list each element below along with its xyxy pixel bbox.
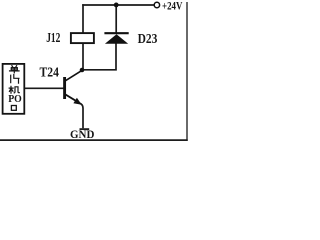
片 (11, 75, 19, 84)
junction: collector node (80, 68, 85, 73)
wire: +24V top rail (82, 4, 154, 6)
terminal +24V (154, 2, 159, 7)
口 (11, 106, 16, 111)
transistor T24 (65, 71, 82, 105)
label 单片机PO口 (vertical text, CJK drawn as paths) (8, 66, 22, 111)
svg-text:GND: GND (70, 127, 95, 141)
wire: collector node to D23 anode corner (82, 44, 116, 70)
wire: emitter down to ground (80, 103, 83, 128)
svg-text:+24V: +24V (162, 1, 183, 13)
wire: rail down to D23 cathode (115, 4, 117, 33)
svg-text:J12: J12 (46, 30, 60, 45)
wire: rail down to relay J12 (82, 4, 84, 33)
wire: J12 bottom to collector node (82, 43, 84, 70)
svg-text:D23: D23 (138, 32, 158, 47)
单 (10, 66, 19, 73)
relay coil J12 (71, 33, 94, 43)
diode D23 (104, 33, 128, 44)
ground (80, 128, 90, 130)
junction: top rail / D23 branch (114, 3, 119, 8)
wire: base wire from MCU box to T24 (25, 87, 64, 89)
机 (9, 86, 19, 93)
svg-text:PO: PO (8, 94, 22, 105)
svg-text:T24: T24 (40, 65, 59, 80)
MCU port box 单片机PO口 (3, 64, 25, 114)
